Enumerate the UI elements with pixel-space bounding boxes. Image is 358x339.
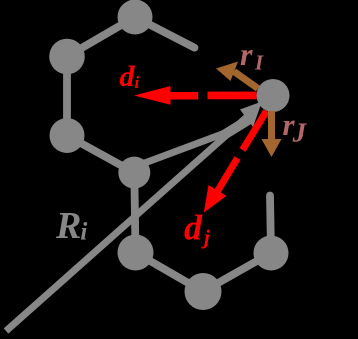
arrow d_i dash near node [208, 92, 257, 100]
node G [254, 236, 289, 271]
arrow r_I shaft [234, 72, 258, 89]
svg-text:dj: dj [184, 208, 210, 250]
svg-text:Ri: Ri [55, 205, 87, 247]
arrow d_i head [134, 86, 171, 105]
arrow d_j dash2 [216, 158, 238, 195]
wire bond A-B [67, 17, 135, 57]
arrow r_J head [262, 139, 282, 157]
node H central [257, 79, 290, 112]
wire from node D to gray arrowhead [134, 129, 237, 168]
svg-text:rI: rI [240, 36, 264, 75]
wire bond F-G [203, 253, 271, 292]
wire bond C-D [67, 136, 134, 173]
arrowhead gray of R_i vector [219, 120, 249, 139]
wire R_i line from origin corner to gray arrowhead [6, 116, 248, 331]
node B [49, 39, 85, 75]
wire bond G partial up [270, 196, 271, 254]
arrow d_i shaft [168, 92, 198, 100]
node F [185, 273, 222, 310]
arrow d_j dash1 [243, 111, 267, 150]
arrow r_I head [216, 62, 238, 82]
wire bond E-F [136, 253, 204, 292]
wire bond D-E [134, 173, 135, 253]
node A [118, 0, 153, 35]
node E [118, 235, 154, 271]
svg-text:di: di [120, 60, 140, 93]
arrow d_j head [204, 185, 227, 213]
wire bond B-C [63, 57, 71, 136]
node D [118, 157, 150, 189]
arrow r_J shaft [268, 111, 275, 140]
svg-text:rJ: rJ [283, 107, 308, 147]
wire bond A partial [135, 17, 195, 48]
node C [50, 118, 85, 153]
